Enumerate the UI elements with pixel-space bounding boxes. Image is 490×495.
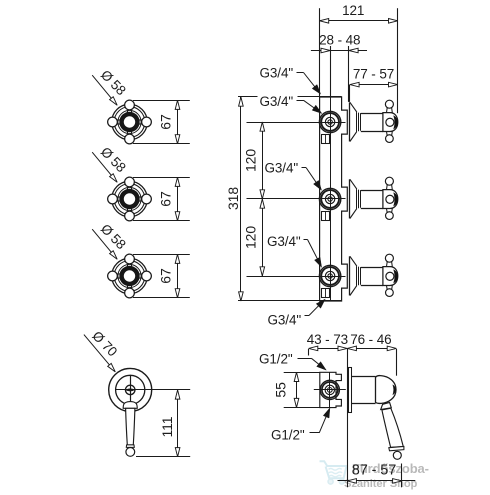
label G1/2 bottom [271,408,330,443]
cross handle 1 side view [383,100,398,142]
svg-text:G3/4": G3/4" [267,234,301,249]
svg-text:G1/2": G1/2" [259,352,293,367]
lever handle grip front view [123,402,137,457]
dimension 67 for handle 3 [133,254,190,298]
escutcheon bell valve 2 [350,179,383,218]
dimension 121 [320,3,398,113]
lever valve cartridge [314,380,346,399]
valve 1 cartridge side view [319,111,340,132]
dimension 318 [225,97,243,301]
dimension 28 - 48 [311,33,367,102]
svg-text:111: 111 [159,416,175,437]
dimension label diameter 70 for lever handle [84,328,120,372]
mounting tab below valve 3 [322,289,330,298]
svg-text:G1/2": G1/2" [271,428,305,443]
lever escutcheon flange [349,368,352,413]
dimension 120 (valve2-valve3) [243,199,265,276]
extension line top of body (318 dim) [238,96,342,98]
dimension 77 - 57 [350,67,398,102]
dimension label diameter 58 for handle 3 [92,221,129,259]
svg-text:121: 121 [342,3,364,18]
svg-text:87 - 57: 87 - 57 [352,463,396,479]
dimension label diameter 58 for handle 2 [92,144,129,182]
mounting tab below valve 1 [322,135,330,144]
dimension 111 for lever handle [136,390,190,457]
label G3/4 valve 3 [267,234,322,267]
svg-text:120: 120 [243,149,259,172]
lever escutcheon sleeve [351,377,376,404]
valve centre extension lines [247,122,346,124]
svg-text:67: 67 [158,191,174,207]
svg-text:G3/4": G3/4" [268,313,302,328]
lever valve front face line [329,372,331,407]
lever handle escutcheon front view [109,368,191,411]
cross handle 3 front view [108,254,152,298]
cross handle 3 side view [383,254,398,296]
concealed valve body plate side view [320,97,348,301]
mounting tab below valve 2 [322,212,330,221]
cross handle 2 side view [383,177,398,219]
watermark shop logo cart [320,461,347,484]
svg-text:55: 55 [272,382,288,398]
dimension 43 - 73 and 76 - 46 [307,332,397,488]
svg-text:G3/4": G3/4" [265,161,299,176]
svg-text:G3/4": G3/4" [260,94,294,109]
cross handle 2 front view [108,177,152,221]
svg-text:318: 318 [225,187,241,210]
escutcheon bell valve 1 [350,102,383,141]
label G3/4 valve 2 [265,161,322,191]
lever knob side view [376,376,397,404]
label G3/4 bottom outlet [268,299,326,327]
valve 2 cartridge side view [319,188,340,209]
lever valve body plate side view [320,372,342,407]
dimension label diameter 58 for handle 1 [92,67,129,105]
dimension 120 (valve1-valve2) [243,122,265,199]
svg-text:67: 67 [158,114,174,130]
dimension 55 [272,372,319,407]
label G3/4 top inlet [260,66,321,95]
extension line bottom of body (318 dim) [238,300,342,302]
lever arm side view [381,402,404,459]
svg-text:G3/4": G3/4" [260,66,294,81]
cross handle 1 front view [108,100,152,144]
watermark text [344,461,429,490]
svg-text:77 - 57: 77 - 57 [353,67,394,82]
escutcheon bell valve 3 [350,256,383,295]
valve 3 cartridge side view [319,265,340,286]
label G1/2 top [259,352,326,371]
svg-text:28 - 48: 28 - 48 [319,33,360,48]
dimension 87 - 57 [338,463,416,488]
dimension 67 for handle 2 [133,177,190,221]
label G3/4 valve 1 [258,93,322,114]
dimension 67 for handle 1 [133,100,190,144]
svg-text:43 - 73: 43 - 73 [307,332,348,347]
svg-text:67: 67 [158,268,174,284]
svg-text:120: 120 [243,226,259,249]
svg-text:76 - 46: 76 - 46 [350,332,391,347]
body front face line [330,97,332,301]
